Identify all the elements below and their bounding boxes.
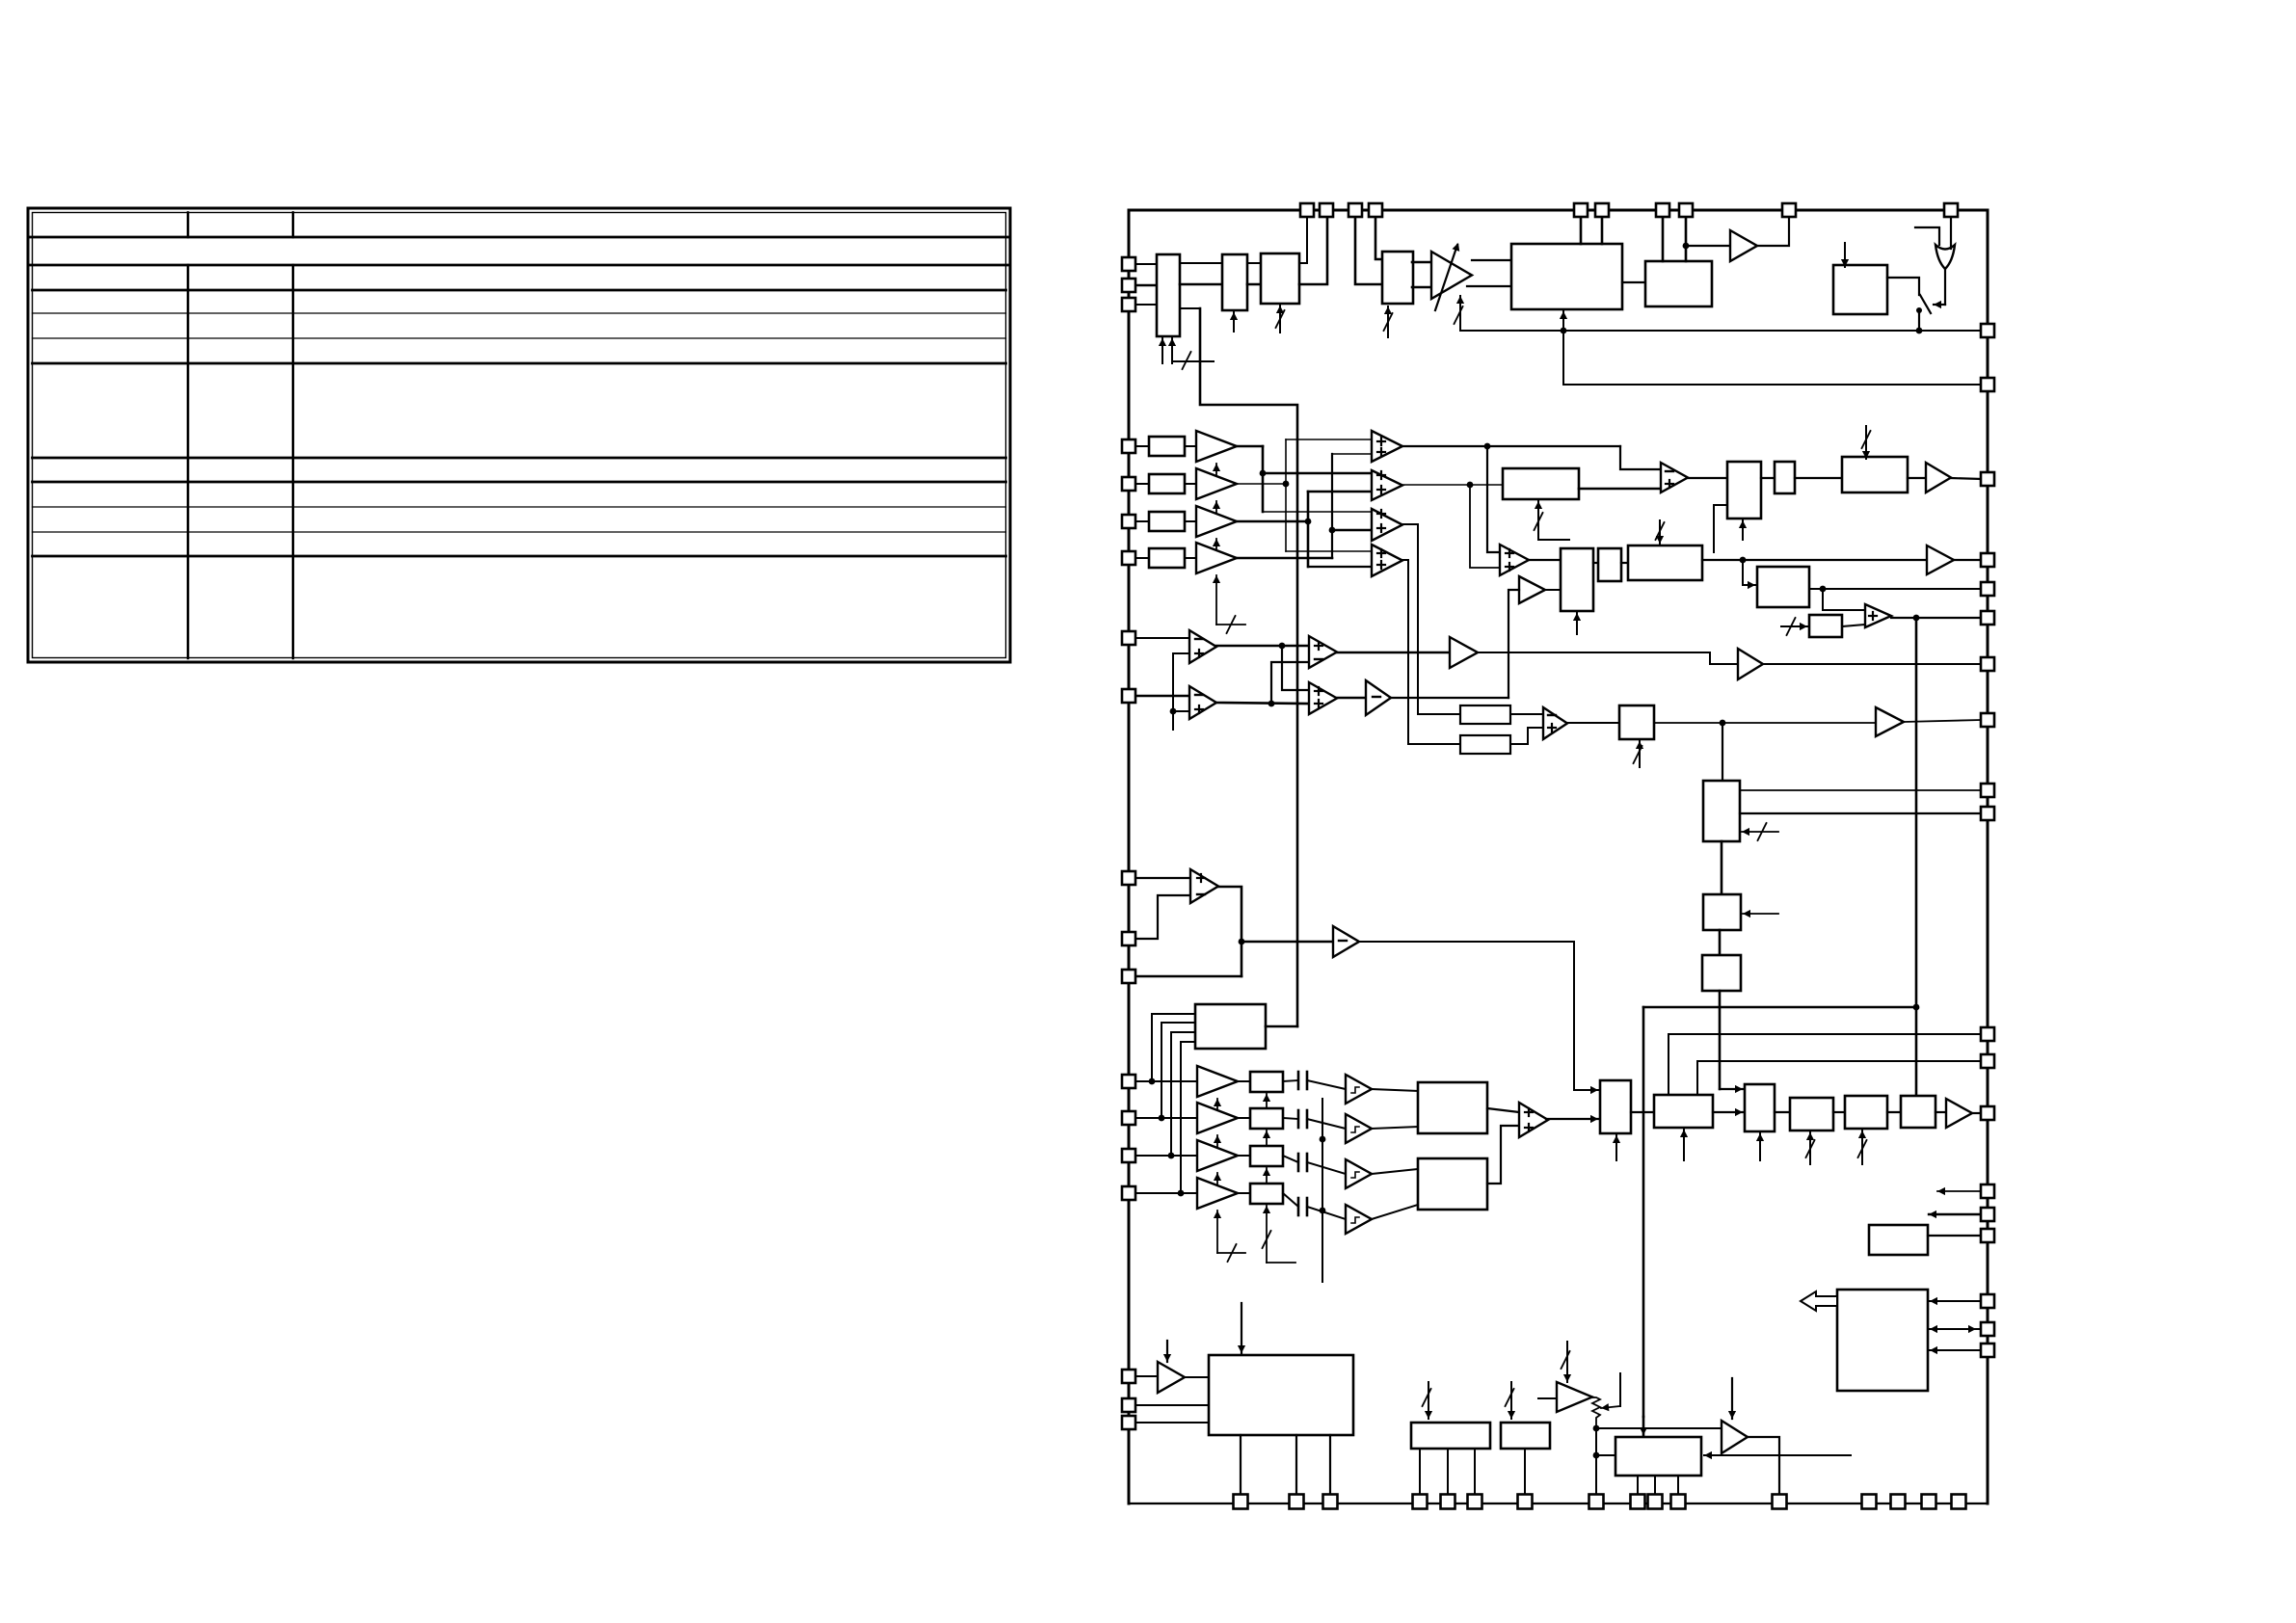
wire A3 to top pin x1376 — [1299, 217, 1327, 284]
pin bottom x1530 — [1468, 1495, 1482, 1509]
pin left y463 — [1122, 439, 1135, 453]
tap wire row1 to ADDR — [1149, 1014, 1195, 1084]
block Q — [1703, 781, 1740, 841]
table row line (thin) y=552 — [33, 531, 1006, 533]
buffer T4 — [1738, 649, 1763, 679]
table column divider 2 upper — [292, 213, 295, 238]
wire box to cap srow4 — [1283, 1193, 1298, 1207]
wire right pin y399 — [1563, 384, 1981, 386]
wire T2 to right pin y497 — [1951, 478, 1981, 479]
wire S1 output — [1402, 443, 1620, 450]
arrow right pin y1401 into X — [1930, 1346, 1981, 1354]
wire L output — [1702, 557, 1927, 564]
wire P output — [1654, 720, 1876, 727]
summing amp S2 — [1372, 470, 1402, 500]
wire left pin y974 to O1 minus — [1129, 895, 1190, 939]
wire comp2 out to op4 plus — [1216, 701, 1309, 707]
buffer T5 — [1876, 707, 1904, 736]
pin top x1427 — [1369, 203, 1382, 217]
wire ADDR out to bus — [1266, 1025, 1297, 1028]
wire amp to box srow2 — [1238, 1117, 1250, 1119]
table column divider 1 lower — [187, 265, 190, 658]
wire W to right pin y1282 — [1928, 1235, 1981, 1237]
pin left y1238 — [1122, 1186, 1135, 1200]
pin bottom x1939 — [1862, 1495, 1877, 1509]
wire S1box to S7 — [1487, 1108, 1519, 1112]
IC outline bottom border — [1129, 1503, 1988, 1504]
wire box to cap srow2 — [1283, 1118, 1298, 1119]
pin left y296 — [1122, 279, 1135, 292]
pin bottom x2032 — [1952, 1495, 1966, 1509]
pin right y611 — [1981, 582, 1994, 596]
wire left pin y722 to comp2 minus — [1129, 695, 1189, 698]
wire T8 to block Y — [1185, 1376, 1209, 1378]
arrow into G bottom — [1739, 520, 1747, 540]
table row line (thick) y=577 — [33, 555, 1006, 558]
pin left y1428 — [1122, 1370, 1135, 1383]
pin left y1013 — [1122, 970, 1135, 983]
arrow control into V1 bottom — [1680, 1130, 1688, 1160]
wire T4 to right pin y689 — [1763, 663, 1981, 665]
pin right y399 — [1981, 378, 1994, 391]
arrow into Y top — [1238, 1303, 1245, 1353]
block Z1 — [1411, 1423, 1490, 1449]
arrow control into box srow4 with foot — [1263, 1206, 1296, 1263]
level block srow1 — [1250, 1072, 1283, 1092]
OR gate G1 — [1936, 245, 1955, 269]
resistor block R1 — [1460, 705, 1510, 724]
comparator compR — [1543, 707, 1567, 739]
VCA variable-gain amp — [1431, 243, 1472, 310]
block V1 — [1654, 1095, 1713, 1128]
Y leg to bottom pin x1380 — [1329, 1435, 1331, 1495]
wire resistor to amp row2 — [1185, 483, 1196, 485]
wire C-riser to amp T1 — [1686, 245, 1730, 247]
branch comp1 to op4 top — [1282, 646, 1309, 690]
driver block BB — [1615, 1437, 1701, 1476]
arrow control into A3 bottom — [1276, 306, 1285, 333]
slash arrow into Q right — [1742, 823, 1778, 840]
wire T3 to right pin y581 — [1954, 559, 1981, 561]
wire to S1 bottom (+) — [1332, 453, 1372, 455]
signal bus x1988 — [1913, 618, 1920, 1094]
buffer T3 — [1927, 545, 1954, 574]
tap wire row3 to ADDR — [1168, 1032, 1195, 1158]
arrow Q3-riser into V2 — [1720, 1085, 1743, 1093]
bus riser row3 — [1307, 492, 1310, 567]
wire box to cap srow1 — [1283, 1080, 1298, 1081]
input amp srow4 — [1197, 1178, 1238, 1209]
feedback wire to right pin y343 — [1460, 330, 1981, 332]
wire S2box to S7 — [1487, 1126, 1519, 1184]
buffer amp T1 — [1730, 230, 1757, 261]
branch L to M with arrow — [1743, 560, 1755, 589]
wire S1 branch down to S5 — [1487, 446, 1500, 552]
arrow control into amp srow4 with foot — [1214, 1211, 1245, 1262]
arrow control into U bottom — [1613, 1135, 1620, 1160]
gain resistor block row4 — [1149, 548, 1185, 568]
wire N to S6 bottom — [1842, 625, 1865, 626]
pin right y1401 — [1981, 1344, 1994, 1357]
table row line (thick) y=377 — [33, 362, 1006, 365]
wire left pin y1428 to T8 — [1129, 1375, 1158, 1377]
block V3 — [1790, 1098, 1833, 1131]
wire S1 to comparator F minus — [1620, 446, 1661, 469]
arrow control into A1 bottom a — [1159, 338, 1166, 363]
slash arrow into Z1 top — [1423, 1382, 1433, 1419]
branch M down to S6 top — [1823, 589, 1865, 610]
arrow into J bottom — [1573, 613, 1581, 634]
pin bottom x1380 — [1323, 1495, 1338, 1509]
arrow control into box srow1 — [1263, 1094, 1270, 1116]
wire Q out to right pin y820 — [1740, 789, 1981, 791]
wire left pin row2 — [1129, 483, 1149, 485]
table row line (thick) y=475 — [33, 457, 1006, 460]
schmitt trigger srow1 — [1346, 1075, 1372, 1104]
arrow control into V3 bottom — [1806, 1132, 1815, 1164]
wire cap to schmitt srow4 — [1307, 1207, 1346, 1219]
wire resistor to amp row3 — [1185, 520, 1196, 522]
wire A2 to A3 lower — [1247, 283, 1261, 286]
arrow control into V4 bottom — [1858, 1131, 1867, 1164]
pin left y722 — [1122, 689, 1135, 703]
triangle T9 into J — [1519, 576, 1545, 603]
arrow control into V2 bottom — [1756, 1133, 1764, 1160]
pin right y689 — [1981, 657, 1994, 671]
block A3 — [1261, 253, 1299, 304]
bus riser row1 — [1260, 446, 1267, 512]
RZ leg to bottom pin x1656 — [1595, 1428, 1597, 1495]
arrow control into amp srow2 — [1214, 1135, 1221, 1155]
Z1 leg to bottom pin x1473 — [1419, 1450, 1421, 1495]
block B (main processor) — [1511, 244, 1622, 309]
pin right y343 — [1981, 324, 1994, 337]
coupling capacitor srow4 — [1298, 1198, 1307, 1215]
BB leg to bottom pin x1717 — [1654, 1476, 1656, 1495]
wire TriB to bottom pin x1846 — [1748, 1437, 1779, 1495]
tap wire row4 to ADDR — [1178, 1042, 1195, 1196]
arrow control into amp row4 with foot — [1213, 575, 1245, 633]
wire left pin y1458 to Y — [1129, 1404, 1209, 1406]
pin right y820 — [1981, 784, 1994, 797]
wire left pin srow1 — [1129, 1080, 1197, 1082]
wire E output to comparator F plus — [1579, 488, 1661, 491]
input amp row3 — [1196, 506, 1237, 537]
wire top pin x1725 into C — [1662, 217, 1665, 261]
pin right y1155 — [1981, 1106, 1994, 1120]
summing amp S4 — [1372, 545, 1402, 576]
wire A4 to VCA lower — [1412, 286, 1431, 289]
wire stub into OR left input — [1915, 227, 1939, 245]
arrow into TriB top — [1728, 1378, 1736, 1419]
input amp srow3 — [1197, 1140, 1238, 1171]
pin right y1101 — [1981, 1054, 1994, 1068]
input amp srow1 — [1197, 1066, 1238, 1097]
block Q2 — [1703, 894, 1741, 930]
wire top pin x1662 into B — [1601, 217, 1604, 244]
wire U to V1 — [1631, 1111, 1654, 1113]
wire row2 out — [1237, 481, 1289, 488]
wire to S2 top (+) — [1263, 472, 1372, 475]
IC outline right border — [1987, 210, 1989, 1503]
wire T7 to right pin y1155 — [1972, 1112, 1981, 1114]
feedback riser and arrow into B bottom — [1560, 311, 1567, 385]
wire schmitt3 to S2box — [1372, 1169, 1418, 1174]
table row line (thin) y=526 — [33, 506, 1006, 508]
coupling capacitor srow3 — [1298, 1154, 1307, 1171]
pin right y1236 — [1981, 1184, 1994, 1198]
main vertical bus x1346 — [1200, 308, 1297, 1026]
buffer T8 — [1158, 1362, 1185, 1393]
wire top pin x1640 into B — [1580, 217, 1583, 244]
counter block S1box — [1418, 1082, 1487, 1133]
buffer T6 — [1333, 926, 1359, 957]
counter block S2box — [1418, 1158, 1487, 1210]
wire V2 to V3 — [1775, 1111, 1790, 1113]
block W — [1869, 1225, 1928, 1255]
wire A1 to A2 lower — [1180, 283, 1222, 286]
tap wire row2 to ADDR — [1159, 1023, 1195, 1121]
arrow control into box srow3 — [1263, 1168, 1270, 1190]
wire J to K — [1593, 562, 1598, 564]
block Q3 — [1702, 955, 1741, 991]
schmitt trigger srow3 — [1346, 1159, 1372, 1188]
slash arrow into N — [1781, 618, 1807, 635]
pin right y747 — [1981, 713, 1994, 727]
pin top x1749 — [1679, 203, 1693, 217]
wire S2 output — [1402, 482, 1503, 489]
arrow right pin y1260 inward — [1929, 1211, 1981, 1218]
pin right y1350 — [1981, 1294, 1994, 1308]
wire RZ tap to TriB input — [1596, 1427, 1722, 1429]
pin right y1379 — [1981, 1322, 1994, 1336]
pin right y844 — [1981, 807, 1994, 820]
wire V4 to V5 — [1887, 1111, 1901, 1113]
control foot line under A1 — [1172, 352, 1214, 369]
pin bottom x1287 — [1234, 1495, 1248, 1509]
pin bottom x1582 — [1518, 1495, 1533, 1509]
wire cap to schmitt srow2 — [1307, 1119, 1346, 1129]
gain control arrow under VCA — [1455, 296, 1465, 331]
coupling capacitor srow1 — [1298, 1072, 1307, 1089]
pin bottom x2001 — [1922, 1495, 1936, 1509]
wire T5 to right pin y747 — [1904, 720, 1981, 722]
pin right y581 — [1981, 553, 1994, 567]
wire V3 to V4 — [1833, 1111, 1845, 1113]
pin bottom x1969 — [1891, 1495, 1906, 1509]
threshold riser x1217 — [1170, 653, 1177, 730]
pin left y1160 — [1122, 1111, 1135, 1125]
pin top x1376 — [1320, 203, 1333, 217]
wire amp to box srow4 — [1238, 1192, 1250, 1194]
wire left pin srow2 — [1129, 1117, 1197, 1119]
arrow into D top — [1841, 243, 1849, 267]
wire schmitt1 to S1box — [1372, 1089, 1418, 1091]
pin left y662 — [1122, 631, 1135, 645]
wire resistor to amp row4 — [1185, 557, 1196, 559]
block M — [1757, 567, 1809, 607]
pin right y1282 — [1981, 1229, 1994, 1242]
system block Y — [1209, 1355, 1353, 1435]
interface block X — [1837, 1290, 1928, 1391]
block G — [1727, 462, 1761, 519]
block E (hold) — [1503, 468, 1579, 499]
block I — [1842, 457, 1908, 492]
wire stub into TriR — [1538, 1397, 1557, 1399]
pin top x1662 — [1595, 203, 1609, 217]
wire I to T2 — [1908, 477, 1926, 479]
wire to S2 bottom (+) — [1308, 491, 1372, 493]
vertical bus x1705 — [1640, 1007, 1647, 1435]
gain resistor block row2 — [1149, 474, 1185, 493]
input amp srow2 — [1197, 1103, 1238, 1133]
junction dot under RZ — [1593, 1425, 1600, 1459]
wire right pin y1101 tap — [1697, 1061, 1981, 1095]
wire left pin row4 — [1129, 557, 1149, 559]
wire S3 output to R1 — [1402, 524, 1460, 714]
input amp row4 — [1196, 543, 1237, 573]
wire branch down to Q — [1722, 723, 1723, 781]
BB leg to bottom pin x1699 — [1637, 1476, 1639, 1495]
block A1 (input stage) — [1157, 254, 1180, 336]
wire Q2 to Q3 — [1719, 930, 1722, 955]
wire to S4 bottom (+) — [1308, 566, 1372, 568]
wire left pin srow4 — [1129, 1192, 1197, 1194]
arrow control into amp srow1 — [1214, 1099, 1221, 1118]
pin right y1260 — [1981, 1208, 1994, 1221]
arrow right pin y1236 inward — [1937, 1187, 1981, 1195]
table outer frame — [28, 208, 1010, 662]
pin bottom x1345 — [1290, 1495, 1304, 1509]
wiper arrow into RZ — [1601, 1373, 1620, 1411]
bidir wire right pin y1379 — [1930, 1325, 1981, 1333]
pin left y911 — [1122, 871, 1135, 885]
buffer T4b — [1450, 637, 1478, 668]
OR output arrow to switch — [1934, 269, 1945, 308]
block J — [1561, 548, 1593, 611]
pin right y497 — [1981, 472, 1994, 486]
wire pin-316 to block A1 — [1129, 304, 1157, 306]
block A4 — [1382, 252, 1413, 304]
wire amp to box srow1 — [1238, 1080, 1250, 1082]
wire H to I — [1795, 477, 1842, 479]
table column divider 1 upper — [187, 213, 190, 238]
comparator comp2 — [1189, 686, 1216, 719]
wire top pin x2024 to OR right input — [1950, 217, 1952, 249]
ADDR decoder block — [1195, 1004, 1266, 1049]
wire K to L — [1621, 562, 1628, 564]
pin right y641 — [1981, 611, 1994, 625]
wire T6 long run right — [1359, 942, 1574, 1090]
wire right pin y1073 tap — [1669, 1034, 1981, 1095]
Z1 leg to bottom pin x1530 — [1474, 1450, 1476, 1495]
wire B to block C — [1622, 281, 1645, 283]
threshold common line x1372 — [1320, 1099, 1326, 1282]
IC outline left border — [1128, 210, 1131, 1503]
arrow S7 to U — [1546, 1115, 1598, 1123]
pin bottom x1846 — [1773, 1495, 1787, 1509]
wire R2 to compR plus — [1510, 728, 1543, 744]
slash arrow into T8 top — [1163, 1341, 1171, 1362]
block P — [1619, 705, 1654, 739]
slash arrow into Z2 top — [1506, 1382, 1516, 1419]
arrow into Q2 right — [1743, 910, 1778, 918]
resistor block R2 — [1460, 735, 1510, 754]
block U — [1600, 1080, 1631, 1133]
comparator comp1 — [1189, 630, 1216, 663]
wire O1 branch to T6 — [1241, 941, 1333, 944]
wire left pin row1 — [1129, 445, 1149, 447]
wire A2 to A3 upper — [1247, 262, 1261, 264]
wire T4b output long run — [1478, 652, 1738, 664]
summing amp S5 — [1500, 545, 1529, 575]
pin left y541 — [1122, 515, 1135, 528]
wire Q to Q2 — [1721, 841, 1723, 894]
wire row3 out — [1237, 519, 1311, 525]
wire schmitt2 to S1box — [1372, 1127, 1418, 1129]
table inner frame — [33, 213, 1006, 658]
wire left pin y1476 to Y — [1129, 1422, 1209, 1423]
table row line (thin) y=325 — [33, 312, 1006, 314]
arrow control into A2 bottom — [1230, 312, 1238, 332]
arrow into U top-left — [1574, 1086, 1598, 1094]
level block srow2 — [1250, 1108, 1283, 1129]
arrow into I top — [1862, 426, 1871, 459]
wire schmitt4 to S2box — [1372, 1205, 1418, 1219]
pin left y274 — [1122, 257, 1135, 271]
wire A1 right to bus riser — [1180, 307, 1200, 309]
pin top x1725 — [1656, 203, 1669, 217]
wire box to cap srow3 — [1283, 1156, 1298, 1162]
arrow control into A4 bottom — [1384, 306, 1393, 337]
coupling capacitor srow2 — [1298, 1110, 1307, 1128]
wire S5 to J — [1529, 559, 1561, 561]
wire riser to comp1 plus — [1173, 652, 1189, 654]
input amp row1 — [1196, 431, 1237, 462]
wire S6 to right pin y641 — [1891, 615, 1981, 622]
pin top x1356 — [1300, 203, 1314, 217]
block H — [1775, 462, 1795, 493]
inverter inv1 — [1366, 680, 1391, 715]
wire into G left — [1714, 505, 1727, 552]
arrow control into amp srow3 — [1214, 1173, 1221, 1192]
schmitt trigger srow4 — [1346, 1205, 1372, 1234]
switch lower wire — [1916, 310, 1923, 333]
pin bottom x1717 — [1648, 1495, 1663, 1509]
wire op4 out to inverter — [1337, 697, 1366, 700]
wire V5 to T7 — [1936, 1111, 1946, 1113]
wire resistor to amp row1 — [1185, 445, 1196, 447]
pin bottom x1699 — [1631, 1495, 1645, 1509]
block N — [1809, 615, 1842, 637]
wire T1 to top pin x1856 — [1757, 217, 1789, 246]
bus riser row2 — [1285, 439, 1287, 551]
arrow control into A1 bottom b — [1168, 338, 1176, 363]
summing amp S1 — [1372, 431, 1402, 462]
wire bus branch y1045 — [1643, 1006, 1916, 1009]
arrow control into amp row2 — [1213, 501, 1220, 522]
IC outline top border — [1129, 209, 1988, 212]
block L — [1628, 545, 1702, 580]
wire op3 out to buffer T4b — [1337, 652, 1450, 654]
wire inv1 riser to T9 — [1508, 590, 1519, 698]
pin left y579 — [1122, 551, 1135, 565]
summing amp S3 — [1372, 509, 1402, 541]
pin top x1406 — [1348, 203, 1362, 217]
buffer T7 — [1946, 1099, 1972, 1128]
wire riser to comp2 plus — [1173, 710, 1189, 712]
gain resistor block row1 — [1149, 437, 1185, 456]
